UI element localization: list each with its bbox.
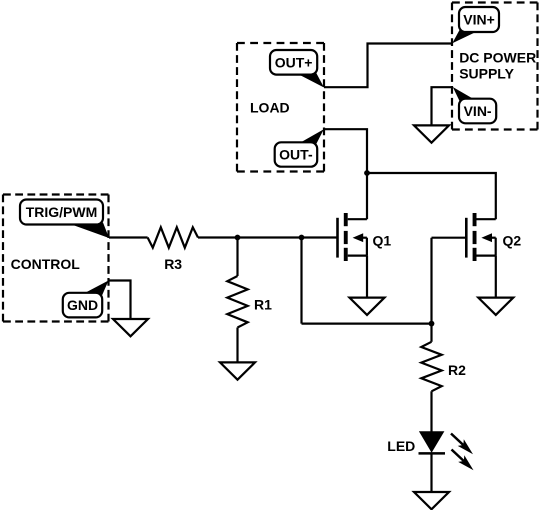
svg-text:DC POWER: DC POWER bbox=[459, 50, 536, 66]
svg-text:OUT-: OUT- bbox=[279, 147, 313, 163]
svg-text:LOAD: LOAD bbox=[250, 99, 290, 115]
svg-text:R1: R1 bbox=[254, 296, 272, 312]
svg-text:Q2: Q2 bbox=[503, 232, 522, 248]
svg-text:TRIG/PWM: TRIG/PWM bbox=[26, 204, 98, 220]
svg-text:CONTROL: CONTROL bbox=[11, 256, 81, 272]
svg-text:LED: LED bbox=[387, 438, 415, 454]
svg-text:SUPPLY: SUPPLY bbox=[459, 65, 514, 81]
svg-text:R2: R2 bbox=[448, 362, 466, 378]
svg-text:Q1: Q1 bbox=[373, 232, 392, 248]
svg-text:VIN-: VIN- bbox=[464, 103, 492, 119]
svg-text:GND: GND bbox=[67, 297, 98, 313]
svg-text:VIN+: VIN+ bbox=[463, 12, 495, 28]
svg-text:OUT+: OUT+ bbox=[275, 54, 313, 70]
svg-text:R3: R3 bbox=[164, 256, 182, 272]
